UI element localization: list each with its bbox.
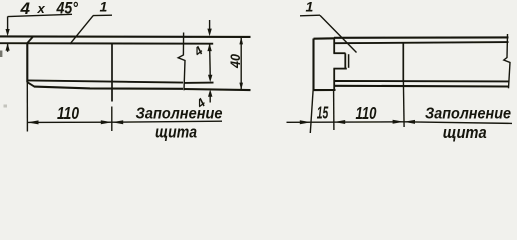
scan speckle left edge (0, 51, 2, 58)
left bar chamfer line (upper inner line, with left extension) (0, 42, 213, 45)
right bar groove bottom vertical (348, 54, 350, 68)
leader shelf for 4x45 label (8, 14, 72, 16)
110 dim left extension line (26, 82, 28, 132)
right 4 dim (bottom): shaft below (209, 96, 211, 103)
svg-text:110: 110 (57, 103, 79, 123)
svg-text:щита: щита (155, 123, 197, 141)
left bar bottom edge (before break) (34, 87, 183, 89)
left bar lower inner line (before break) (28, 80, 183, 82)
right bar break zigzag (504, 34, 510, 88)
40 dim arrowhead down (239, 83, 243, 91)
right zapolnenie left arrowhead (404, 120, 415, 124)
left bar bottom edge (after break) (184, 89, 251, 90)
right bar tongue end vertical (344, 53, 346, 68)
left label 1 shelf (93, 14, 112, 16)
svg-text:4: 4 (20, 0, 31, 18)
right 110 dim right extension (402, 81, 405, 127)
svg-text:x: x (37, 1, 46, 16)
4x45 dim lower arrow shaft (7, 44, 9, 52)
right label 1 shelf (300, 14, 320, 17)
scan speckle near left bottom (4, 105, 8, 108)
svg-text:110: 110 (356, 103, 377, 123)
left zapolnenie left arrowhead (112, 120, 123, 124)
right 4 dim (bottom): arrowhead up (208, 89, 212, 97)
110 dim right arrowhead (101, 120, 112, 124)
right board bottom edge (334, 85, 509, 88)
4x45 dim upper arrowhead (down) (6, 29, 10, 36)
right bar tongue notch top (333, 52, 345, 54)
svg-text:45°: 45° (56, 0, 78, 18)
right 15 dim left extension (310, 90, 313, 133)
right 4 dim (top): shaft above (209, 20, 211, 31)
right 15 outside arrowhead (300, 120, 311, 124)
right bar strip interface upper part (333, 38, 335, 54)
right bar upper groove line (334, 42, 509, 43)
right 4 dim (top): shaft below (209, 44, 212, 69)
right bar tongue notch bottom (333, 68, 346, 70)
svg-text:15: 15 (317, 103, 329, 123)
4x45 dim upper arrow shaft (7, 17, 9, 32)
40 dim arrowhead up (239, 37, 243, 45)
left bar divider at end of 110 strip (111, 44, 113, 102)
left label 1 leader (70, 16, 93, 44)
left bar break zigzag (178, 33, 185, 91)
right 110 left arrowhead (334, 120, 345, 124)
svg-text:1: 1 (100, 0, 108, 15)
left zapolnenie dim line / underline (112, 121, 222, 122)
left bar top edge (with left extension to image edge) (0, 35, 251, 38)
left bar top chamfer 4x45 (27, 37, 33, 44)
right 4 dim (bottom): shaft above (209, 69, 211, 78)
right bar left edge (312, 39, 314, 91)
110 dim line (27, 121, 112, 123)
right label 1 leader (320, 15, 357, 52)
right 4 dim (top): arrowhead down (207, 29, 211, 37)
svg-text:Заполнение: Заполнение (136, 106, 223, 123)
svg-text:40: 40 (227, 54, 243, 69)
right strip bottom edge (313, 89, 335, 91)
40 dim line (240, 37, 242, 90)
right bar lower groove line (334, 80, 509, 82)
left bar lower inner line (after break) (184, 82, 214, 84)
right board top edge (334, 36, 509, 38)
svg-text:Заполнение: Заполнение (425, 105, 511, 122)
110 dim right extension line (111, 107, 113, 132)
right bar divider at end of 110 strip (402, 43, 404, 81)
left bar left edge (26, 43, 28, 82)
right 15/110 shared extension (333, 90, 335, 130)
svg-text:1: 1 (306, 0, 314, 15)
left bar bottom chamfer (27, 82, 34, 87)
right 110 right arrowhead (393, 120, 404, 124)
right 4 dim (top): arrowhead up (207, 44, 211, 52)
right bar strip interface lower part (333, 69, 335, 91)
svg-text:щита: щита (443, 124, 487, 142)
right dim line full with zapolnenie underline (287, 122, 513, 124)
right 4 dim (bottom): arrowhead down (208, 75, 212, 83)
4x45 dim lower arrowhead (up) (6, 43, 10, 50)
right strip top edge (314, 37, 336, 40)
110 dim left arrowhead (27, 120, 38, 124)
